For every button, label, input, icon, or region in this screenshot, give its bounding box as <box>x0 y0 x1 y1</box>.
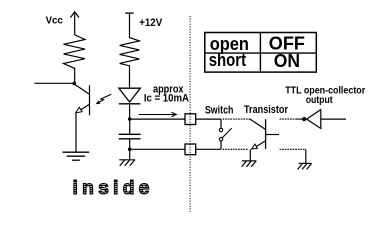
svg-text:short: short <box>209 50 246 70</box>
svg-text:output: output <box>306 94 333 106</box>
svg-text:Transistor: Transistor <box>244 104 289 116</box>
svg-text:Ic = 10mA: Ic = 10mA <box>144 92 189 104</box>
svg-text:Switch: Switch <box>205 104 234 116</box>
svg-text:ON: ON <box>274 51 300 71</box>
svg-text:Vcc: Vcc <box>46 15 63 27</box>
svg-text:+12V: +12V <box>139 17 163 29</box>
